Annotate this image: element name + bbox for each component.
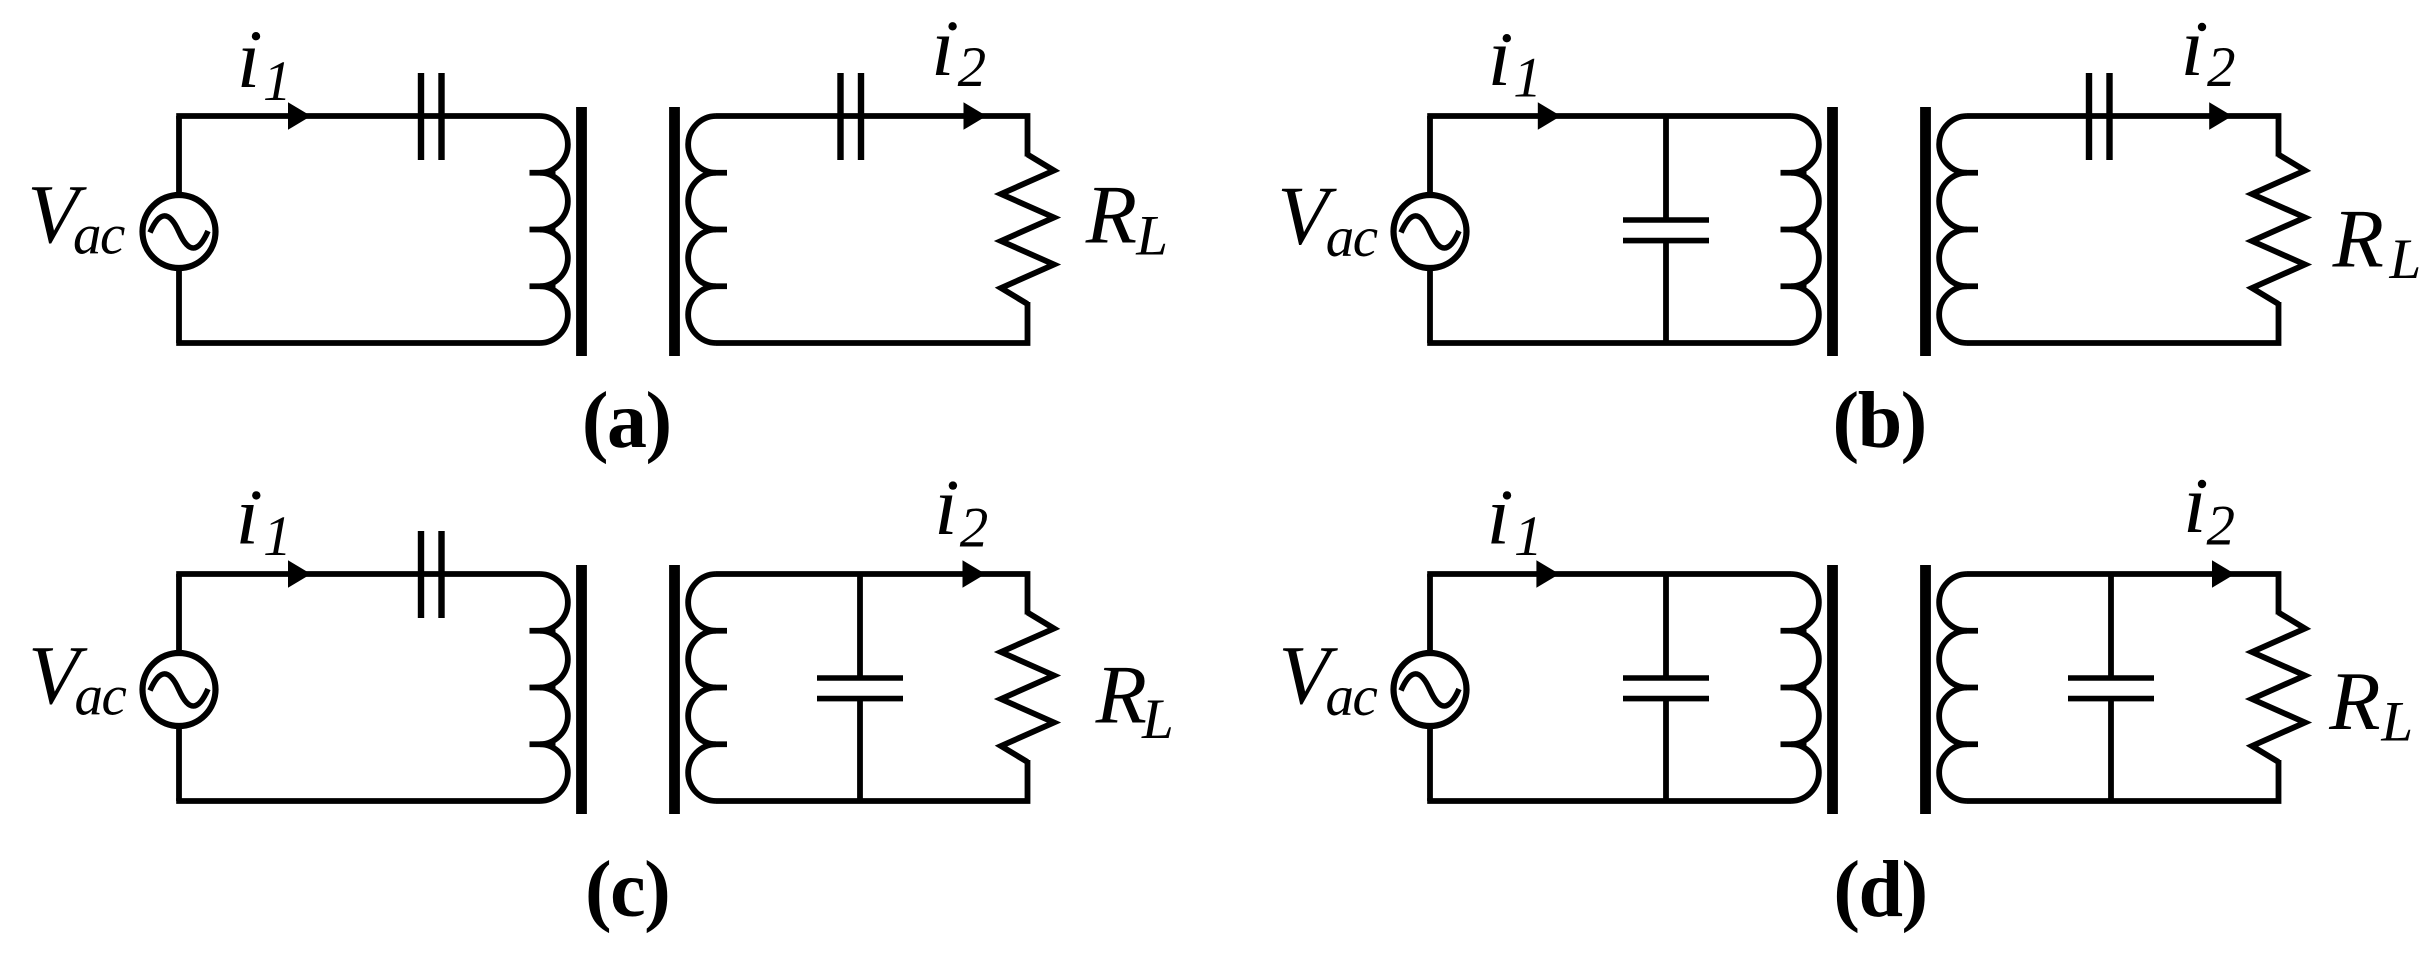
transformer core bar right (b): [1920, 107, 1931, 356]
label i1 (b): [1488, 11, 1542, 110]
svg-text:ı: ı: [2181, 1, 2204, 94]
current arrow i2 (a): [964, 102, 987, 130]
transformer core bar left (a): [576, 107, 587, 356]
inductor L1 primary coil (a): [530, 116, 568, 343]
svg-text:R: R: [2332, 193, 2384, 286]
current arrow i1 (b): [1538, 102, 1561, 130]
transformer core bar left (c): [576, 565, 587, 814]
svg-text:ı: ı: [934, 460, 957, 553]
label Vac (b): [1277, 169, 1377, 269]
label i2 (b): [2181, 1, 2236, 99]
label i1 (a): [237, 13, 292, 113]
wire left vertical (b): [1427, 116, 1433, 343]
inductor L2 secondary coil (c): [688, 574, 727, 801]
current arrow i2 (b): [2209, 102, 2232, 130]
svg-text:L: L: [1135, 204, 1168, 267]
voltage source Vac (c): [143, 653, 216, 726]
wire bottom primary (b): [1427, 340, 1791, 346]
svg-text:L: L: [1141, 688, 1174, 751]
capacitor C2 parallel (d): [2068, 678, 2154, 699]
svg-text:L: L: [2389, 228, 2422, 291]
transformer core bar left (b): [1827, 107, 1838, 356]
wire top primary (b): [1427, 113, 1791, 119]
wire bottom secondary (a): [716, 302, 1028, 343]
transformer core bar right (d): [1920, 565, 1931, 814]
current arrow i2 (c): [963, 560, 986, 588]
label i2 (c): [934, 460, 988, 559]
resistor RL (d): [2252, 613, 2305, 763]
wire parallel branch primary (d): [1663, 574, 1669, 801]
svg-text:R: R: [1085, 168, 1137, 261]
wire parallel branch secondary (d): [2108, 574, 2114, 801]
svg-text:ı: ı: [2183, 458, 2206, 551]
label Vac (a): [27, 168, 125, 266]
capacitor C1 series (c): [421, 531, 442, 618]
label RL (a): [1085, 168, 1168, 267]
svg-text:(d): (d): [1833, 846, 1926, 934]
label i1 (c): [236, 470, 292, 569]
label RL (d): [2328, 655, 2413, 754]
capacitor C1 parallel (b): [1623, 220, 1709, 241]
label Vac (d): [1279, 629, 1378, 728]
transformer core bar left (d): [1827, 565, 1838, 814]
capacitor C1 series (a): [421, 73, 442, 160]
wire bottom primary (d): [1427, 798, 1791, 804]
inductor L2 secondary coil (a): [688, 116, 727, 343]
svg-text:(a): (a): [582, 377, 671, 465]
svg-text:ac: ac: [1326, 665, 1378, 728]
wire top primary (c): [176, 571, 540, 577]
current arrow i2 (d): [2212, 560, 2235, 588]
inductor L2 secondary coil (d): [1939, 574, 1978, 801]
wire top primary (d): [1427, 571, 1791, 577]
wire top primary (a): [176, 113, 540, 119]
svg-text:2: 2: [2207, 36, 2236, 99]
wire parallel branch secondary (c): [857, 574, 863, 801]
svg-text:2: 2: [958, 36, 987, 99]
svg-text:ı: ı: [1488, 11, 1511, 104]
svg-text:ı: ı: [931, 1, 954, 94]
label RL (c): [1095, 649, 1174, 751]
svg-text:2: 2: [2207, 494, 2236, 557]
wire bottom secondary (c): [716, 760, 1028, 801]
svg-text:L: L: [2380, 691, 2413, 754]
svg-text:ı: ı: [237, 13, 260, 106]
wire left vertical (c): [176, 574, 182, 801]
wire left vertical (a): [176, 116, 182, 343]
svg-text:R: R: [2328, 655, 2380, 748]
label Vac (c): [28, 629, 126, 728]
wire top secondary (a): [716, 116, 1028, 157]
svg-text:2: 2: [960, 496, 989, 559]
wire top secondary (b): [1967, 116, 2279, 157]
wire top secondary (c): [716, 574, 1028, 615]
svg-text:1: 1: [263, 50, 292, 113]
svg-text:ac: ac: [73, 203, 125, 266]
wire bottom primary (c): [176, 798, 540, 804]
voltage source Vac (d): [1394, 653, 1467, 726]
label i2 (d): [2183, 458, 2235, 557]
voltage source Vac (a): [143, 195, 216, 268]
capacitor C2 series (a): [841, 73, 862, 160]
inductor L1 primary coil (c): [530, 574, 568, 801]
svg-text:1: 1: [1513, 47, 1542, 110]
resistor RL (a): [1001, 155, 1054, 305]
wire parallel branch primary (b): [1663, 116, 1669, 343]
svg-text:R: R: [1095, 649, 1147, 742]
current arrow i1 (c): [288, 560, 311, 588]
svg-text:(c): (c): [585, 846, 669, 934]
svg-text:(b): (b): [1833, 377, 1926, 465]
wire bottom secondary (d): [1967, 760, 2279, 801]
svg-text:ı: ı: [236, 470, 259, 563]
capacitor C2 series (b): [2089, 73, 2110, 160]
capacitor C2 parallel (c): [817, 678, 903, 699]
svg-text:1: 1: [263, 505, 292, 568]
current arrow i1 (d): [1536, 560, 1559, 588]
label i1 (d): [1487, 470, 1543, 569]
wire bottom primary (a): [176, 340, 540, 346]
inductor L2 secondary coil (b): [1939, 116, 1978, 343]
resistor RL (b): [2252, 155, 2305, 305]
capacitor C1 parallel (d): [1623, 678, 1709, 699]
svg-text:ac: ac: [75, 665, 127, 728]
svg-text:ac: ac: [1326, 206, 1378, 269]
label RL (b): [2332, 193, 2422, 292]
voltage source Vac (b): [1394, 195, 1467, 268]
resistor RL (c): [1001, 613, 1054, 763]
inductor L1 primary coil (d): [1781, 574, 1819, 801]
inductor L1 primary coil (b): [1781, 116, 1819, 343]
svg-text:1: 1: [1514, 505, 1543, 568]
transformer core bar right (a): [669, 107, 680, 356]
transformer core bar right (c): [669, 565, 680, 814]
current arrow i1 (a): [288, 102, 311, 130]
label i2 (a): [931, 1, 986, 99]
wire top secondary (d): [1967, 574, 2279, 615]
wire left vertical (d): [1427, 574, 1433, 801]
svg-text:ı: ı: [1487, 470, 1510, 563]
wire bottom secondary (b): [1967, 302, 2279, 343]
